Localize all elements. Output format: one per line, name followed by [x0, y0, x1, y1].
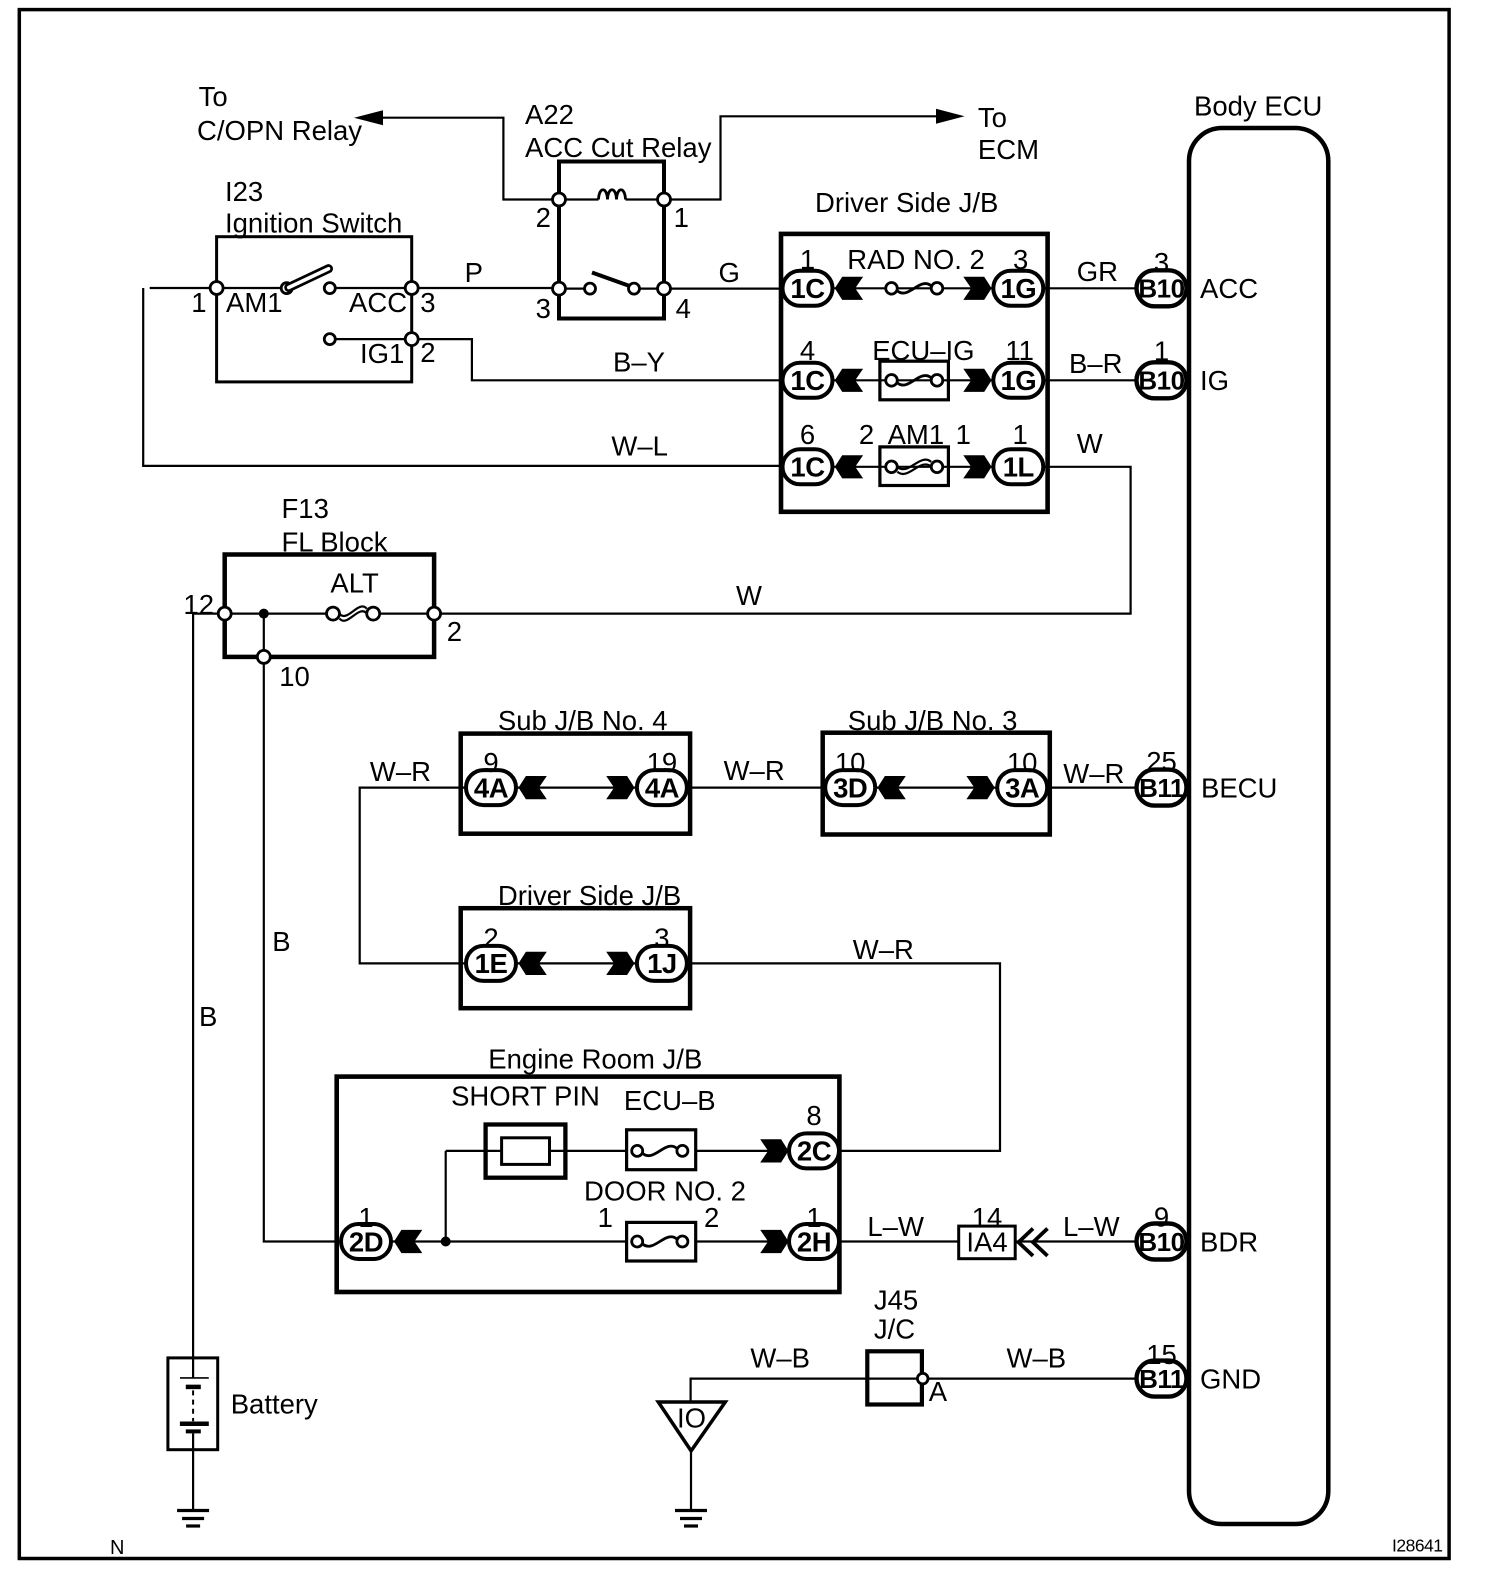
svg-text:W–R: W–R [724, 755, 785, 786]
svg-text:ECM: ECM [978, 134, 1039, 165]
svg-text:A22: A22 [525, 99, 574, 130]
svg-text:SHORT PIN: SHORT PIN [451, 1081, 600, 1112]
svg-text:10: 10 [835, 747, 866, 778]
svg-text:1: 1 [800, 244, 815, 275]
svg-text:25: 25 [1146, 746, 1177, 777]
svg-text:N: N [110, 1537, 124, 1559]
svg-text:L–W: L–W [1063, 1211, 1120, 1242]
svg-text:W: W [1077, 428, 1103, 459]
svg-text:To: To [978, 102, 1007, 133]
svg-text:B: B [272, 926, 290, 957]
svg-text:B11: B11 [1139, 773, 1184, 803]
svg-text:W: W [736, 580, 762, 611]
svg-text:2: 2 [420, 337, 435, 368]
svg-text:W–R: W–R [853, 934, 914, 965]
svg-text:IO: IO [677, 1403, 706, 1434]
svg-text:2: 2 [536, 202, 551, 233]
svg-text:BDR: BDR [1200, 1227, 1258, 1258]
svg-text:6: 6 [800, 419, 815, 450]
svg-text:1: 1 [674, 202, 689, 233]
svg-text:J45: J45 [874, 1285, 918, 1316]
svg-text:2C: 2C [797, 1136, 832, 1167]
svg-text:1G: 1G [1000, 365, 1036, 396]
svg-text:10: 10 [279, 661, 310, 692]
svg-text:I23: I23 [225, 176, 263, 207]
svg-text:L–W: L–W [867, 1211, 924, 1242]
svg-text:J/C: J/C [874, 1314, 915, 1345]
svg-text:FL Block: FL Block [282, 527, 388, 558]
svg-text:F13: F13 [282, 493, 329, 524]
svg-text:1: 1 [1013, 419, 1028, 450]
svg-text:Sub J/B No. 3: Sub J/B No. 3 [848, 705, 1018, 736]
svg-text:P: P [465, 257, 483, 288]
svg-text:ACC Cut Relay: ACC Cut Relay [525, 132, 712, 163]
svg-text:1: 1 [598, 1202, 613, 1233]
svg-text:9: 9 [1154, 1202, 1169, 1233]
svg-text:Battery: Battery [231, 1389, 318, 1420]
svg-text:1L: 1L [1003, 452, 1034, 483]
svg-text:Driver Side J/B: Driver Side J/B [498, 880, 681, 911]
svg-text:W–R: W–R [370, 756, 431, 787]
svg-text:B: B [199, 1001, 217, 1032]
svg-text:1: 1 [1154, 336, 1169, 367]
svg-text:B10: B10 [1138, 366, 1184, 396]
svg-text:B10: B10 [1138, 274, 1184, 304]
svg-text:IG1: IG1 [360, 338, 404, 369]
svg-text:2: 2 [483, 923, 498, 954]
svg-text:11: 11 [1005, 335, 1034, 366]
svg-text:1: 1 [191, 287, 206, 318]
svg-text:1: 1 [358, 1202, 373, 1233]
svg-text:3: 3 [1013, 244, 1028, 275]
svg-text:RAD NO. 2: RAD NO. 2 [847, 244, 985, 275]
svg-text:3: 3 [420, 287, 435, 318]
svg-text:ACC: ACC [1200, 273, 1258, 304]
svg-text:19: 19 [647, 747, 678, 778]
svg-text:1G: 1G [1000, 273, 1036, 304]
svg-text:GR: GR [1077, 256, 1118, 287]
svg-text:C/OPN Relay: C/OPN Relay [197, 115, 362, 146]
svg-text:1C: 1C [790, 452, 825, 483]
svg-text:1: 1 [806, 1202, 821, 1233]
svg-text:ECU–B: ECU–B [624, 1085, 716, 1116]
svg-text:3: 3 [1154, 247, 1169, 278]
svg-text:W–B: W–B [1007, 1343, 1067, 1374]
svg-text:1: 1 [956, 419, 971, 450]
svg-text:ACC: ACC [349, 287, 407, 318]
svg-text:B–R: B–R [1069, 348, 1123, 379]
svg-text:G: G [719, 257, 740, 288]
svg-text:Driver Side J/B: Driver Side J/B [815, 187, 998, 218]
svg-text:12: 12 [183, 589, 214, 620]
svg-text:IG: IG [1200, 365, 1229, 396]
svg-text:BECU: BECU [1201, 773, 1277, 804]
svg-text:1C: 1C [790, 365, 825, 396]
svg-text:10: 10 [1007, 747, 1038, 778]
svg-text:GND: GND [1200, 1364, 1261, 1395]
svg-text:ECU–IG: ECU–IG [872, 335, 974, 366]
svg-text:14: 14 [972, 1202, 1003, 1233]
svg-text:9: 9 [483, 747, 498, 778]
svg-text:3: 3 [654, 923, 669, 954]
svg-text:2: 2 [704, 1202, 719, 1233]
svg-text:AM1: AM1 [226, 287, 283, 318]
svg-text:W–R: W–R [1063, 758, 1124, 789]
svg-text:To: To [199, 81, 228, 112]
svg-text:1C: 1C [790, 273, 825, 304]
svg-text:AM1: AM1 [888, 419, 945, 450]
svg-text:4: 4 [800, 335, 815, 366]
svg-text:15: 15 [1146, 1339, 1177, 1370]
svg-text:ALT: ALT [330, 568, 379, 599]
svg-text:Ignition Switch: Ignition Switch [225, 208, 402, 239]
svg-text:2: 2 [859, 419, 874, 450]
svg-text:I28641: I28641 [1392, 1536, 1443, 1556]
svg-text:W–B: W–B [750, 1343, 810, 1374]
svg-text:3: 3 [536, 293, 551, 324]
svg-text:Body ECU: Body ECU [1194, 91, 1322, 122]
svg-text:A: A [929, 1376, 948, 1407]
svg-text:2: 2 [447, 616, 462, 647]
svg-text:W–L: W–L [611, 431, 668, 462]
svg-text:4: 4 [676, 293, 691, 324]
svg-text:B–Y: B–Y [613, 347, 665, 378]
svg-text:8: 8 [806, 1100, 821, 1131]
svg-text:Engine Room J/B: Engine Room J/B [488, 1044, 702, 1075]
svg-text:Sub J/B No. 4: Sub J/B No. 4 [498, 705, 668, 736]
